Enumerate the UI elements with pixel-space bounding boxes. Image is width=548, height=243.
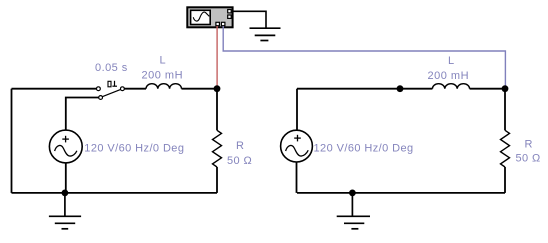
wire node to resistor right (504, 89, 506, 131)
wire inductor to node (182, 88, 218, 90)
ground (left circuit) (49, 193, 81, 229)
wire source bottom right (296, 162, 298, 193)
wire channel A (red) (216, 26, 218, 89)
wire source top jog to switch (66, 98, 99, 131)
wire right circuit left edge (296, 89, 298, 131)
wire resistor to bottom (216, 167, 218, 193)
wire left circuit bottom (12, 192, 218, 194)
svg-text:L: L (160, 55, 166, 67)
AC source V1 left (49, 130, 82, 163)
resistor R right (501, 130, 510, 167)
ground (right circuit) (337, 193, 370, 229)
wire source bottom (65, 163, 67, 193)
svg-text:50 Ω: 50 Ω (227, 155, 252, 167)
svg-text:0.05 s: 0.05 s (95, 62, 128, 74)
svg-text:50 Ω: 50 Ω (516, 153, 541, 165)
oscilloscope XSC1 (187, 7, 232, 27)
wire scope ground terminal (234, 11, 267, 28)
svg-text:120 V/60 Hz/0 Deg: 120 V/60 Hz/0 Deg (314, 143, 414, 155)
svg-text:200 mH: 200 mH (142, 70, 184, 82)
wire right circuit top (297, 88, 432, 90)
inductor L right (432, 84, 469, 89)
wire resistor to bottom right (504, 167, 506, 193)
svg-text:R: R (525, 139, 533, 151)
wire left circuit top (12, 88, 97, 90)
wire switch to inductor (124, 88, 146, 90)
wire inductor to node right (470, 88, 506, 90)
wire channel B (blue) (223, 26, 505, 89)
wire node to resistor (216, 89, 218, 131)
wire left circuit left edge (11, 89, 13, 193)
node junction ground right (349, 190, 356, 197)
node junction left top (214, 85, 221, 92)
svg-text:120 V/60 Hz/0 Deg: 120 V/60 Hz/0 Deg (84, 143, 184, 155)
resistor R left (213, 130, 222, 167)
svg-text:200 mH: 200 mH (428, 70, 470, 82)
inductor L left (146, 84, 182, 89)
ground (scope) (250, 28, 281, 40)
AC source V2 right (281, 130, 313, 162)
svg-text:L: L (448, 55, 454, 67)
switch S1 time-delay (97, 81, 125, 100)
wire right circuit bottom (297, 192, 505, 194)
node junction right top corner (502, 85, 509, 92)
node junction right top mid (397, 85, 404, 92)
node junction ground left (62, 190, 69, 197)
svg-text:R: R (236, 140, 244, 152)
